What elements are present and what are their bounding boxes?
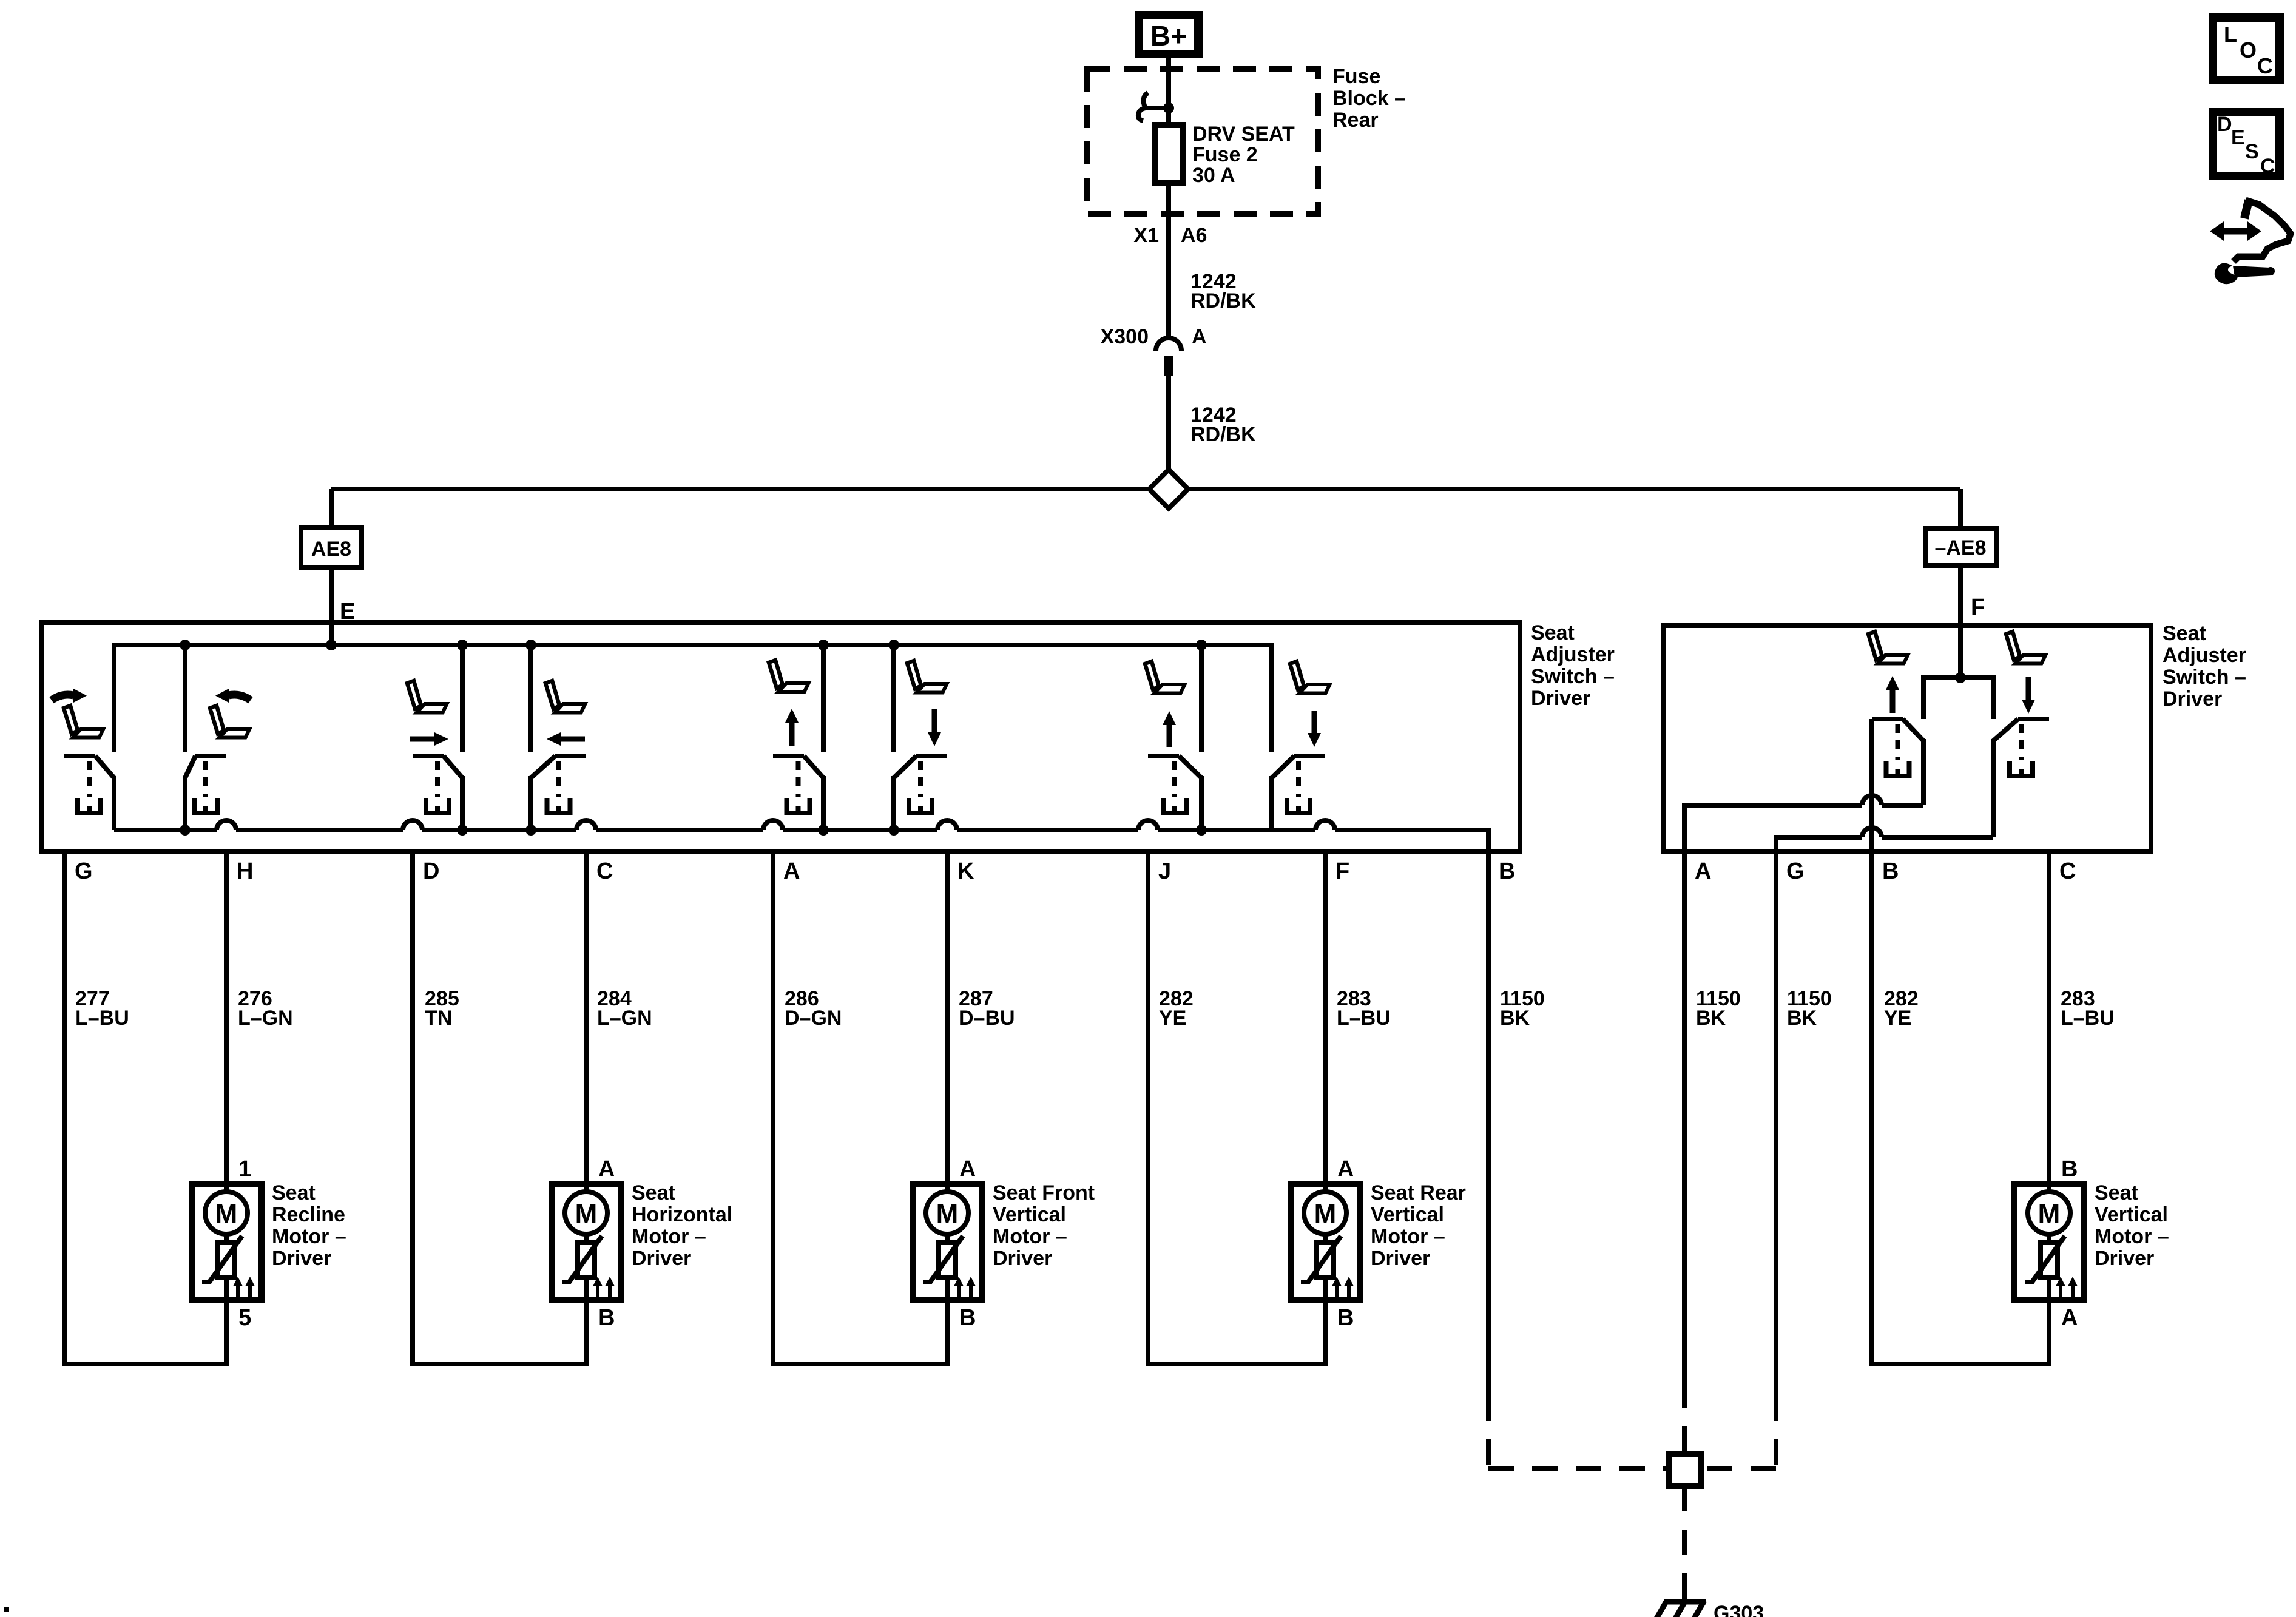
feed U-bar in right box bbox=[1923, 675, 1993, 719]
feed drop at x=762 bbox=[460, 643, 465, 752]
seat icon for switch J bbox=[1145, 661, 1185, 694]
svg-text:Vertical: Vertical bbox=[1371, 1203, 1444, 1226]
ground drop wire bbox=[1682, 1486, 1687, 1601]
svg-text:Seat: Seat bbox=[1531, 621, 1575, 644]
switch down contact (right box, pin C) bbox=[1993, 719, 2049, 837]
motor seat front vertical driver bbox=[913, 1156, 1095, 1331]
svg-text:D: D bbox=[423, 859, 439, 884]
motion arrow for switch J bbox=[1163, 711, 1176, 747]
svg-text:Driver: Driver bbox=[2163, 687, 2222, 711]
junction dot feed bus x=305 bbox=[180, 640, 191, 650]
wire to motor top x=3377 bbox=[2047, 852, 2051, 1184]
svg-text:Motor –: Motor – bbox=[2095, 1225, 2169, 1248]
svg-text:–AE8: –AE8 bbox=[1934, 536, 1986, 559]
svg-text:M: M bbox=[1314, 1199, 1337, 1229]
ground wire from left box pin B bbox=[1488, 851, 1669, 1471]
motion arrow for switch H bbox=[215, 689, 251, 703]
motion arrow for switch F bbox=[1308, 711, 1321, 747]
svg-text:RD/BK: RD/BK bbox=[1190, 423, 1256, 446]
svg-text:Seat: Seat bbox=[632, 1181, 675, 1204]
svg-text:E: E bbox=[2231, 126, 2245, 149]
svg-text:Motor –: Motor – bbox=[632, 1225, 706, 1248]
svg-text:Fuse 2: Fuse 2 bbox=[1192, 143, 1258, 166]
feed drop at x=1473 bbox=[891, 643, 896, 752]
wire AE8 to switch pin E bbox=[329, 568, 334, 623]
adjust icon hand outline bbox=[2209, 200, 2291, 262]
wire label 1242 RD/BK upper bbox=[1190, 270, 1256, 312]
ground symbol G303 bbox=[1656, 1601, 1706, 1617]
wire pin F into box bbox=[1958, 626, 1963, 678]
junction dot return bus x=305 bbox=[180, 825, 191, 836]
battery positive B+ terminal box bbox=[1139, 15, 1198, 54]
svg-text:Driver: Driver bbox=[1531, 687, 1590, 710]
connector AE8 bbox=[301, 528, 362, 568]
seat icon for switch F bbox=[1290, 661, 1330, 694]
svg-text:A: A bbox=[2061, 1305, 2078, 1331]
svg-text:A: A bbox=[1192, 325, 1207, 348]
wire fuse to connector X300 bbox=[1166, 183, 1171, 338]
wire to motor bottom from x=1892 bbox=[1146, 851, 1328, 1364]
label X1 A6 bbox=[1133, 224, 1207, 247]
svg-text:Block –: Block – bbox=[1332, 87, 1406, 110]
svg-text:Adjuster: Adjuster bbox=[2163, 644, 2246, 667]
svg-text:Motor –: Motor – bbox=[1371, 1225, 1445, 1248]
svg-text:G: G bbox=[1786, 859, 1805, 884]
junction dot return bus x=1980 bbox=[1196, 825, 1207, 836]
svg-text:B: B bbox=[2061, 1156, 2078, 1182]
svg-text:Driver: Driver bbox=[1371, 1247, 1430, 1270]
wire label 1242 RD/BK lower bbox=[1190, 403, 1256, 446]
seat adjuster switch driver (right) outline bbox=[1663, 626, 2151, 852]
wire number/color labels bbox=[75, 987, 2115, 1030]
fuse DRV SEAT Fuse 2 30A bbox=[1155, 125, 1183, 183]
LOC legend box bbox=[2213, 18, 2280, 80]
svg-text:B: B bbox=[1337, 1305, 1354, 1331]
svg-text:Recline: Recline bbox=[272, 1203, 345, 1226]
svg-text:BK: BK bbox=[1500, 1007, 1530, 1030]
wire -AE8 to switch pin F bbox=[1958, 565, 1963, 626]
svg-text:C: C bbox=[596, 859, 613, 884]
feed drop at x=875 bbox=[528, 643, 533, 752]
switch K contact bbox=[894, 756, 947, 830]
wire pin B down bbox=[1869, 719, 1874, 852]
ground wire from right box pin G bbox=[1701, 852, 1776, 1471]
svg-text:Rear: Rear bbox=[1332, 109, 1379, 132]
junction dot return bus x=762 bbox=[457, 825, 468, 836]
svg-text:G303: G303 bbox=[1714, 1602, 1764, 1617]
switch feed bus (top, from pin E) bbox=[114, 643, 1272, 752]
feed drop at x=305 bbox=[183, 643, 187, 752]
seat icon for switch G bbox=[64, 706, 104, 738]
svg-text:M: M bbox=[936, 1199, 959, 1229]
svg-text:RD/BK: RD/BK bbox=[1190, 289, 1256, 312]
svg-text:L–BU: L–BU bbox=[1337, 1007, 1391, 1030]
label Fuse Block - Rear bbox=[1332, 65, 1406, 132]
svg-text:G: G bbox=[75, 859, 93, 884]
seat adjuster switch driver (left) outline bbox=[41, 623, 1520, 851]
svg-text:A6: A6 bbox=[1181, 224, 1207, 247]
splice diamond bbox=[1149, 470, 1188, 508]
page corner dot bbox=[4, 1607, 9, 1612]
junction dot feed bus x=546 bbox=[326, 640, 337, 650]
wire B+ to fuse bbox=[1166, 58, 1171, 125]
svg-text:Seat: Seat bbox=[2163, 622, 2206, 645]
svg-text:30 A: 30 A bbox=[1192, 164, 1235, 187]
adjust icon double arrow bbox=[2210, 221, 2261, 241]
svg-text:K: K bbox=[957, 859, 974, 884]
seat icon right box down-switch bbox=[2006, 632, 2046, 664]
svg-text:L–BU: L–BU bbox=[75, 1007, 129, 1030]
main feed bus wire bbox=[331, 487, 1960, 491]
svg-text:Adjuster: Adjuster bbox=[1531, 643, 1615, 666]
junction dot feed bus x=1473 bbox=[888, 640, 899, 650]
svg-text:J: J bbox=[1158, 859, 1171, 884]
seat icon for switch K bbox=[907, 661, 947, 693]
adjust icon wrench bbox=[2215, 263, 2275, 285]
svg-text:B+: B+ bbox=[1150, 20, 1187, 52]
svg-text:Seat Front: Seat Front bbox=[993, 1181, 1095, 1204]
svg-text:5: 5 bbox=[238, 1305, 251, 1331]
svg-text:TN: TN bbox=[425, 1007, 452, 1030]
junction dot feed bus x=1980 bbox=[1196, 640, 1207, 650]
seat icon for switch D bbox=[407, 681, 447, 713]
switch A contact bbox=[773, 756, 823, 830]
switch D contact bbox=[413, 756, 462, 830]
motion arrow down (right box) bbox=[2022, 677, 2035, 714]
label G303 bbox=[1714, 1602, 1764, 1617]
pin label E bbox=[340, 599, 355, 624]
svg-text:C: C bbox=[2059, 859, 2076, 884]
motion arrow for switch D bbox=[410, 732, 448, 746]
ground splice box bbox=[1669, 1454, 1701, 1486]
svg-text:B: B bbox=[598, 1305, 615, 1331]
pin label F bbox=[1971, 595, 1985, 620]
label seat adjuster switch driver (right) bbox=[2163, 622, 2246, 711]
svg-text:M: M bbox=[575, 1199, 598, 1229]
fuse block rear dashed outline bbox=[1087, 69, 1318, 214]
wire pin A to up-switch bbox=[1684, 795, 1923, 852]
svg-text:D–BU: D–BU bbox=[959, 1007, 1015, 1030]
wire bus to AE8 bbox=[329, 489, 334, 528]
svg-text:Seat Rear: Seat Rear bbox=[1371, 1181, 1466, 1204]
svg-text:C: C bbox=[2257, 53, 2273, 78]
svg-text:O: O bbox=[2240, 38, 2257, 62]
switch H contact bbox=[185, 756, 226, 830]
wire to motor bottom from x=680 bbox=[410, 851, 589, 1364]
motion arrow for switch C bbox=[547, 732, 585, 746]
svg-text:D–GN: D–GN bbox=[785, 1007, 842, 1030]
svg-text:A: A bbox=[959, 1156, 976, 1182]
junction dot return bus x=1473 bbox=[888, 825, 899, 836]
svg-text:A: A bbox=[1695, 859, 1711, 884]
motion arrow for switch A bbox=[785, 709, 799, 746]
svg-text:YE: YE bbox=[1159, 1007, 1186, 1030]
label X300 pin A bbox=[1101, 325, 1207, 348]
junction dot pin F feed bbox=[1955, 672, 1966, 683]
svg-text:A: A bbox=[598, 1156, 615, 1182]
feed drop at x=1980 bbox=[1199, 643, 1204, 752]
junction dot feed bus x=1357 bbox=[818, 640, 829, 650]
svg-text:Seat: Seat bbox=[2095, 1181, 2138, 1204]
DESC legend box bbox=[2213, 112, 2280, 178]
seat icon right box up-switch bbox=[1868, 632, 1908, 664]
svg-text:Vertical: Vertical bbox=[993, 1203, 1066, 1226]
wire to motor top x=1561 bbox=[945, 851, 950, 1184]
seat icon for switch A bbox=[769, 660, 809, 692]
switch common return bus (bottom) bbox=[114, 820, 1488, 851]
svg-text:B: B bbox=[1882, 859, 1899, 884]
switch G contact bbox=[64, 756, 114, 830]
svg-text:Motor –: Motor – bbox=[993, 1225, 1067, 1248]
motion arrow for switch G bbox=[52, 689, 87, 703]
svg-text:B: B bbox=[959, 1305, 976, 1331]
svg-text:B: B bbox=[1499, 859, 1515, 884]
switch C contact bbox=[531, 756, 586, 830]
svg-text:M: M bbox=[2038, 1199, 2061, 1229]
junction dot feed bus x=762 bbox=[457, 640, 468, 650]
svg-text:BK: BK bbox=[1696, 1007, 1726, 1030]
wire pin G to down-switch bbox=[1776, 828, 1993, 852]
wire to motor top x=966 bbox=[584, 851, 589, 1184]
svg-text:A: A bbox=[783, 859, 800, 884]
junction dot return bus x=1357 bbox=[818, 825, 829, 836]
label DRV SEAT Fuse 2 30 A bbox=[1192, 123, 1295, 187]
svg-text:L–BU: L–BU bbox=[2061, 1007, 2115, 1030]
svg-text:L–GN: L–GN bbox=[238, 1007, 293, 1030]
svg-text:X300: X300 bbox=[1101, 325, 1149, 348]
svg-text:Vertical: Vertical bbox=[2095, 1203, 2168, 1226]
svg-text:DRV SEAT: DRV SEAT bbox=[1192, 123, 1295, 146]
switch up contact (right box, pin B) bbox=[1872, 719, 1923, 805]
wire to motor top x=2184 bbox=[1323, 851, 1328, 1184]
motion arrow for switch K bbox=[928, 709, 941, 746]
svg-text:Driver: Driver bbox=[993, 1247, 1052, 1270]
junction dot at fuse feed bbox=[1163, 103, 1174, 113]
junction dot feed bus x=875 bbox=[525, 640, 536, 650]
motor seat vertical driver bbox=[2014, 1156, 2169, 1331]
wire to motor bottom from x=3085 bbox=[1869, 852, 2051, 1364]
wire X300 to splice bbox=[1166, 376, 1171, 471]
svg-text:AE8: AE8 bbox=[311, 538, 351, 561]
switch F contact bbox=[1272, 756, 1325, 830]
label seat adjuster switch driver (left) bbox=[1531, 621, 1615, 710]
wire bus to -AE8 bbox=[1958, 489, 1963, 528]
svg-text:H: H bbox=[237, 859, 253, 884]
motion arrow up (right box) bbox=[1886, 676, 1899, 713]
svg-text:Horizontal: Horizontal bbox=[632, 1203, 732, 1226]
inline connector X300 symbol bbox=[1156, 338, 1181, 376]
svg-text:Motor –: Motor – bbox=[272, 1225, 346, 1248]
svg-text:Driver: Driver bbox=[2095, 1247, 2154, 1270]
motor seat recline driver bbox=[192, 1156, 346, 1331]
svg-text:BK: BK bbox=[1787, 1007, 1817, 1030]
fuse block bus tap hook bbox=[1138, 93, 1169, 121]
wire to motor bottom from x=1274 bbox=[771, 851, 950, 1364]
svg-text:C: C bbox=[2260, 155, 2275, 178]
wire to motor bottom from x=106 bbox=[62, 851, 229, 1364]
svg-text:F: F bbox=[1335, 859, 1349, 884]
ground wire from right box pin A bbox=[1682, 852, 1687, 1454]
svg-text:YE: YE bbox=[1884, 1007, 1911, 1030]
svg-text:Seat: Seat bbox=[272, 1181, 316, 1204]
svg-text:A: A bbox=[1337, 1156, 1354, 1182]
svg-text:M: M bbox=[215, 1199, 238, 1229]
svg-text:1: 1 bbox=[238, 1156, 251, 1182]
svg-text:F: F bbox=[1971, 595, 1985, 620]
seat icon for switch C bbox=[545, 681, 586, 713]
switch J contact bbox=[1148, 756, 1201, 830]
wire pin E to feed bus bbox=[329, 623, 334, 645]
connector -AE8 bbox=[1925, 528, 1996, 565]
svg-text:Switch –: Switch – bbox=[1531, 665, 1615, 688]
svg-text:X1: X1 bbox=[1133, 224, 1159, 247]
motor seat rear vertical driver bbox=[1291, 1156, 1466, 1331]
svg-text:Driver: Driver bbox=[272, 1247, 331, 1270]
wire to motor top x=373 bbox=[224, 851, 229, 1184]
feed drop at x=1357 bbox=[821, 643, 826, 752]
svg-text:Driver: Driver bbox=[632, 1247, 691, 1270]
motor seat horizontal driver bbox=[552, 1156, 732, 1331]
svg-text:D: D bbox=[2217, 113, 2232, 136]
svg-text:L: L bbox=[2224, 22, 2237, 47]
svg-text:Fuse: Fuse bbox=[1332, 65, 1380, 88]
seat icon for switch H bbox=[210, 706, 250, 738]
connector pin letters bbox=[75, 859, 2076, 884]
svg-text:Switch –: Switch – bbox=[2163, 666, 2246, 689]
junction dot return bus x=875 bbox=[525, 825, 536, 836]
svg-text:S: S bbox=[2245, 140, 2259, 163]
svg-text:L–GN: L–GN bbox=[597, 1007, 652, 1030]
